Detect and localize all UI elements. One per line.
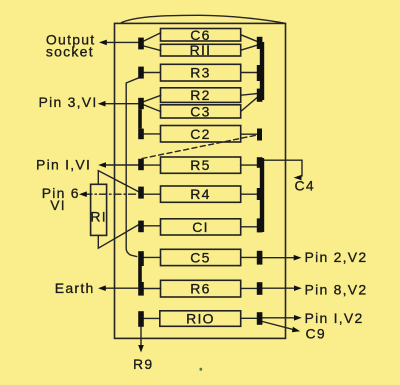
capacitor C3	[161, 105, 241, 118]
svg-text:Pin I,VI: Pin I,VI	[36, 156, 91, 172]
tag strip R5 to C1 right	[260, 158, 264, 232]
wire tag to C3	[144, 105, 161, 112]
arrow to Earth	[98, 285, 106, 291]
svg-text:Pin 2,V2: Pin 2,V2	[305, 249, 368, 265]
wire R4 right	[241, 193, 257, 195]
wire C5 left	[144, 256, 161, 258]
wire R5 tag to C2 tag (dashed underside)	[142, 135, 257, 159]
wire C6 right	[241, 35, 257, 42]
svg-text:C2: C2	[190, 126, 210, 142]
tag R10 left	[138, 311, 144, 327]
tag R6 right	[257, 282, 263, 295]
capacitor C5	[161, 249, 241, 265]
wire R10 right	[241, 317, 257, 319]
tag strip C6 to R2 right	[260, 42, 264, 100]
arrow to Pin 8,V2	[294, 285, 302, 291]
tag C1 right	[257, 218, 263, 232]
capacitor C6	[161, 29, 241, 42]
wire Pin 3,V1	[104, 103, 139, 105]
arrow to R9	[138, 345, 144, 353]
resistor R10	[160, 311, 241, 327]
wire C1 right	[241, 226, 257, 228]
svg-text:R6: R6	[190, 281, 210, 297]
tag R2/C3 right	[257, 89, 263, 102]
wire R6 left	[144, 288, 161, 290]
wire R2 right	[241, 94, 257, 96]
svg-text:Earth: Earth	[55, 280, 95, 296]
wire Earth	[104, 287, 138, 289]
wire R9 down	[140, 327, 142, 347]
wire Pin 1,V2	[262, 317, 294, 319]
wire R3 left	[144, 72, 161, 74]
tag C6/R11 left	[138, 38, 144, 50]
wire R1 bottom to C1 tag	[98, 225, 139, 249]
tag strip C5 to R6 left (earth bus)	[138, 266, 142, 282]
arrow to Output socket	[99, 40, 107, 46]
tag C6/R11 right	[257, 37, 263, 49]
svg-text:socket: socket	[46, 43, 94, 59]
wire tag to R2	[144, 95, 161, 101]
capacitor C1	[161, 219, 241, 235]
svg-text:C3: C3	[190, 103, 210, 119]
svg-text:C5: C5	[190, 249, 210, 265]
arrow to Pin 6,V1	[79, 191, 87, 197]
wire R5 right	[241, 164, 257, 166]
svg-text:Pin 8,V2: Pin 8,V2	[305, 281, 368, 297]
wire tag to R11	[144, 46, 161, 51]
wire Pin 2,V2	[262, 257, 294, 259]
wire tag to C6	[144, 33, 161, 41]
tag R6 left	[138, 282, 144, 296]
wire R6 right	[241, 287, 257, 289]
resistor R6	[161, 280, 241, 297]
svg-text:R5: R5	[190, 157, 210, 173]
arrow to Pin 1,V1	[98, 162, 106, 168]
arrow to Pin 3,V1	[98, 101, 106, 107]
svg-text:RIO: RIO	[186, 310, 215, 326]
arrow to C9	[292, 327, 300, 333]
tag strip R2 to C2 left	[138, 109, 142, 128]
svg-text:RI: RI	[90, 209, 107, 225]
resistor R1	[91, 184, 107, 235]
wire Pin 6,V1 (dash-dot underside)	[85, 193, 138, 195]
tag board outline	[115, 23, 286, 338]
wire Pin 1,V1	[104, 164, 138, 166]
wire output socket	[104, 41, 138, 43]
tag R4 left	[138, 187, 144, 199]
wire R5 left	[144, 164, 161, 166]
resistor R4	[161, 186, 241, 202]
svg-text:CI: CI	[192, 219, 209, 235]
tag R2/C3 left	[138, 98, 144, 109]
svg-text:Pin 3,VI: Pin 3,VI	[39, 94, 98, 110]
svg-text:RII: RII	[190, 42, 212, 58]
capacitor C2	[161, 126, 241, 143]
arrow to C4	[294, 175, 302, 180]
wire C2 left	[144, 133, 161, 135]
svg-text:VI: VI	[50, 197, 66, 213]
svg-text:C9: C9	[306, 325, 326, 341]
wire R3 right	[241, 72, 257, 74]
tag R5 left	[138, 159, 144, 170]
stray mark bottom	[200, 368, 203, 371]
resistor R3	[161, 64, 241, 81]
svg-text:R3: R3	[190, 65, 210, 81]
wire R11 right	[241, 45, 257, 50]
wire to C4	[263, 160, 303, 176]
svg-text:R4: R4	[190, 186, 210, 202]
wire R4 left	[144, 193, 161, 195]
wire over top edge of board	[122, 15, 285, 23]
svg-text:C6: C6	[190, 27, 210, 43]
wire R10 left	[144, 317, 160, 319]
resistor R2	[161, 88, 241, 103]
resistor R11	[161, 44, 241, 56]
tag R3 left	[138, 67, 144, 79]
wire C3 right	[241, 98, 257, 112]
tag R5 right	[257, 157, 263, 168]
wire C2 right	[241, 133, 258, 135]
arrow to Pin 2,V2	[294, 255, 302, 261]
tag C1 left	[138, 221, 144, 233]
svg-text:C4: C4	[295, 178, 315, 194]
tag C5 left	[138, 251, 144, 266]
svg-text:R2: R2	[190, 87, 210, 103]
tag R10 right	[257, 312, 263, 325]
tag C5 right	[257, 251, 263, 265]
wire C9	[262, 322, 293, 330]
tag R3 right	[257, 65, 263, 81]
tag C2 left	[138, 129, 144, 140]
wire R1 top to R4 tag	[98, 171, 138, 192]
arrow to Pin 1,V2	[294, 315, 302, 321]
tag C2 right	[257, 129, 262, 141]
wire R3 tag to C5 tag (vertical run)	[126, 78, 139, 257]
svg-text:R9: R9	[133, 356, 153, 372]
wire C5 right	[241, 256, 257, 258]
tag R4 right	[257, 188, 263, 200]
resistor R5	[161, 157, 241, 173]
wire Pin 8,V2	[262, 287, 294, 289]
wire C1 left	[143, 225, 160, 227]
svg-text:Pin I,V2: Pin I,V2	[305, 310, 364, 326]
